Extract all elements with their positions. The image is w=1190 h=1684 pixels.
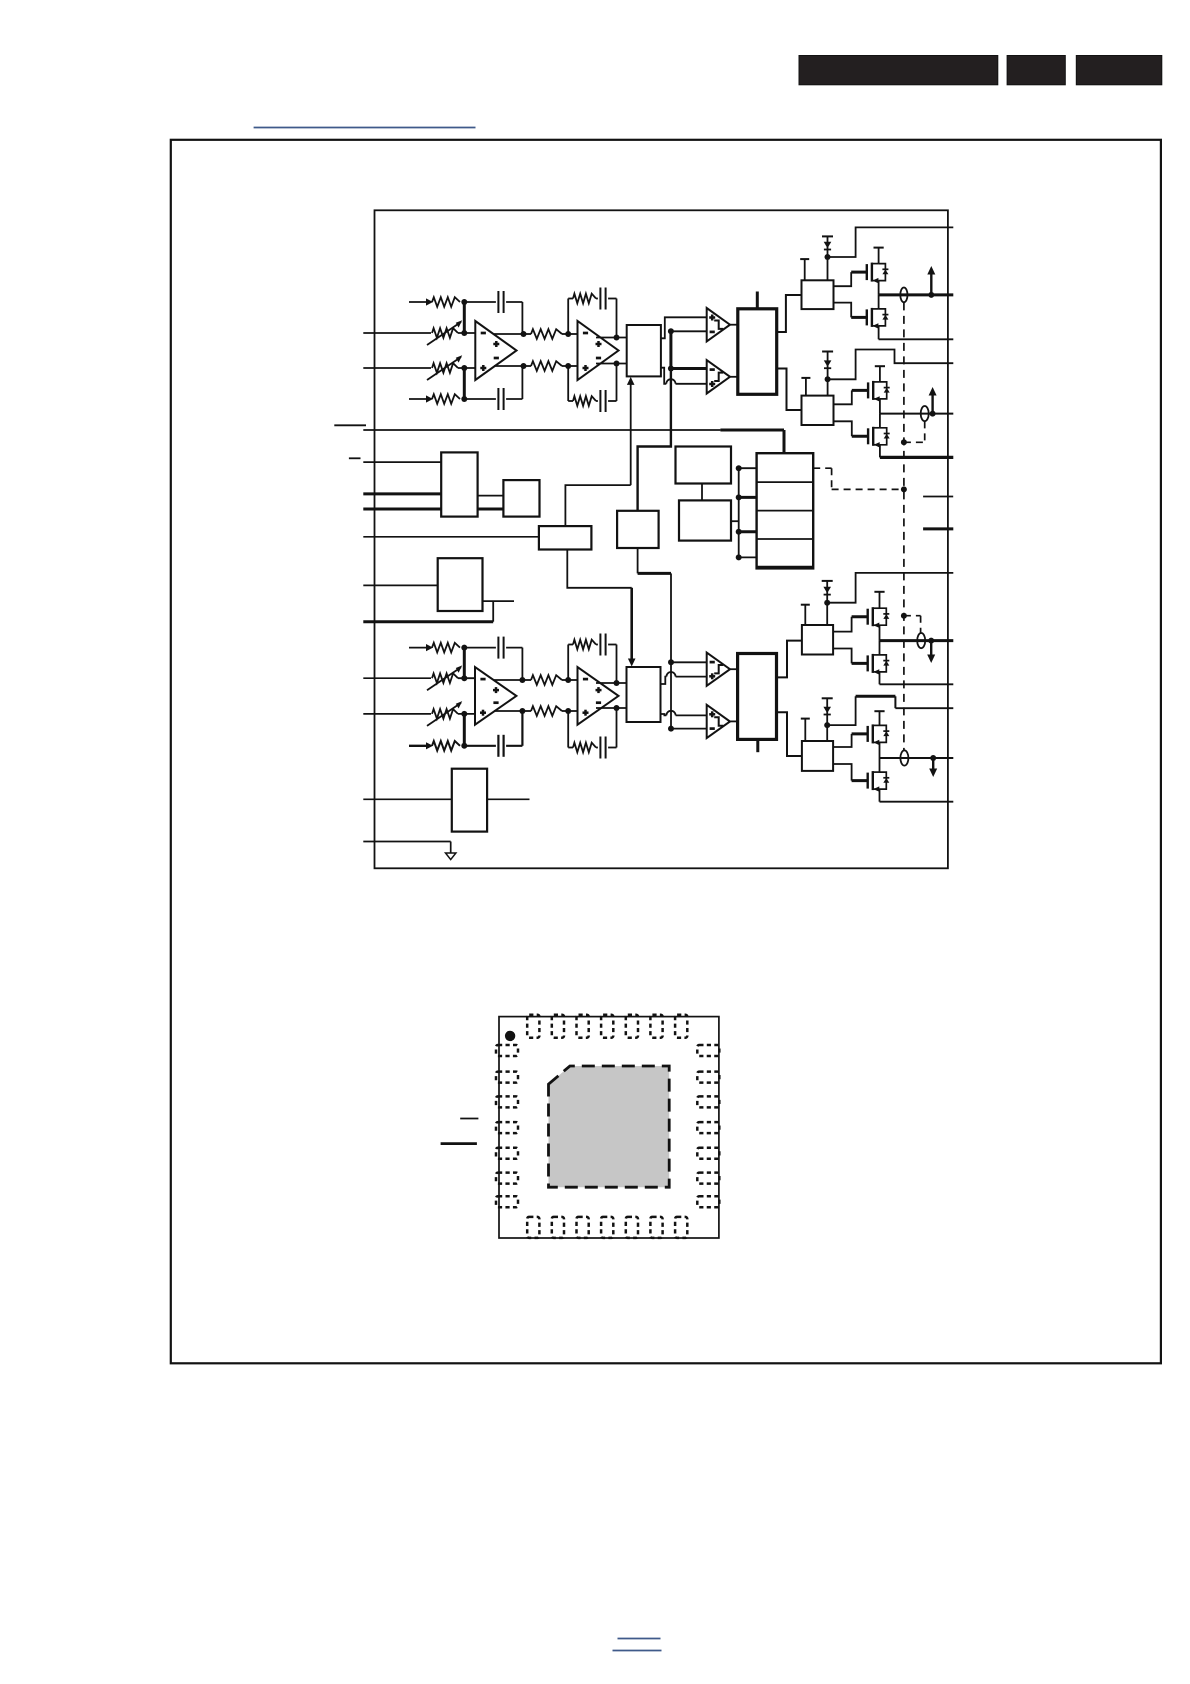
output OUT2 line	[880, 413, 953, 415]
Q1 source to output	[878, 281, 880, 295]
Q6 drain to output	[879, 641, 881, 655]
wire DRV3 to Q6 gate	[833, 649, 868, 664]
Q6 source return	[880, 672, 954, 684]
sense ellipse OUT2	[921, 406, 929, 421]
antenna stub DRV2	[801, 378, 810, 396]
pin bottom 6	[650, 1217, 662, 1238]
pin left 6	[496, 1173, 518, 1184]
wire PWM-A to comparator CMP1	[661, 317, 707, 338]
package outline	[499, 1017, 719, 1238]
D1 net to supply rail	[828, 227, 954, 257]
driver DRV1	[802, 280, 834, 309]
antenna stub DRV1	[800, 259, 809, 280]
Q8 drain to output	[879, 758, 881, 772]
pin left 3	[496, 1096, 518, 1107]
table tap 1	[736, 465, 757, 471]
wire CMP4 output	[730, 720, 738, 722]
transistor Q4 low-side	[868, 427, 890, 448]
Q2 drain to output	[878, 295, 880, 309]
pin bottom 4	[601, 1217, 613, 1238]
block PLIM	[438, 558, 483, 611]
sense ellipse OUT1	[900, 288, 907, 303]
wire PWM-B to comparator CMP4 with hop	[661, 711, 707, 716]
feedback arrow into node C	[409, 644, 433, 651]
wire DRV2 to Q3 gate	[834, 390, 869, 404]
dashed branch to OUT2 ellipse	[901, 421, 925, 445]
pin left 5	[496, 1148, 518, 1159]
wire DRV2 to Q4 gate	[834, 421, 869, 436]
current arrow OUT4	[929, 758, 937, 777]
ramp to PWM-B arrow	[567, 550, 635, 667]
variable resistor VR2	[427, 355, 462, 380]
comparator CMP1	[707, 308, 730, 341]
feedback arrow into node D	[409, 742, 433, 749]
node C dot	[461, 645, 467, 651]
resistor R10	[531, 706, 562, 716]
bus tie rows 7-8	[463, 714, 466, 746]
block REF	[676, 447, 732, 484]
variable resistor VR3	[427, 665, 462, 690]
feedback capacitor C1	[464, 291, 522, 334]
Q4 source return thick	[880, 445, 953, 458]
junction dot OUT2	[930, 411, 936, 417]
transistor Q3 high-side	[868, 381, 890, 402]
wire input row 6	[363, 677, 431, 679]
Q3 drain rail	[875, 366, 885, 382]
Q7 drain rail	[874, 711, 884, 725]
carrier bus vertical	[638, 331, 671, 511]
clamp diode D3	[822, 581, 833, 625]
resistor R7	[432, 643, 460, 653]
PLIM output stub	[483, 600, 515, 602]
footer link underline 1	[618, 1638, 661, 1640]
pin left 4	[496, 1122, 518, 1133]
resistor R1	[432, 297, 460, 307]
wire DRV1 to Q1 gate	[834, 272, 867, 286]
inner diagram border	[375, 210, 948, 868]
block gate-drive logic B	[738, 654, 777, 740]
wire into oscillator	[363, 536, 539, 538]
U2 output wires	[596, 335, 627, 367]
feedback resistor R6 and capacitor C4	[568, 364, 616, 413]
net ramp reference horizontal	[363, 430, 784, 453]
node dots stage2	[565, 331, 571, 369]
driver DRV4	[802, 741, 833, 771]
node dot row6	[458, 675, 475, 681]
Q5 source to output	[879, 625, 881, 640]
Q8 source return	[880, 789, 954, 802]
sense ellipse OUT3	[917, 633, 925, 648]
block logic table	[757, 453, 814, 568]
block RAMP shaper	[617, 511, 659, 548]
dashed branch to OUT3 ellipse	[901, 613, 921, 633]
wire into block PLIM	[363, 584, 437, 586]
feedback resistor R5 and capacitor C3	[568, 288, 616, 338]
U1 output wires	[494, 331, 527, 369]
feedback resistor R11 and capacitor C7	[568, 634, 616, 684]
wire PWM-B to comparator CMP3 with hop	[661, 672, 707, 684]
pin left 2	[496, 1072, 518, 1083]
op-amp U2 integrator	[578, 321, 619, 380]
node dots stage2 lower	[565, 677, 571, 714]
pin bottom 2	[552, 1217, 564, 1238]
carrier bus to lower comparators	[638, 548, 671, 662]
hyperlink underline	[254, 127, 476, 129]
feedback resistor R12 and capacitor C8	[568, 708, 616, 759]
comparator CMP2	[707, 360, 730, 393]
wire CMP3 output	[730, 668, 738, 670]
right edge stub thin	[923, 496, 953, 498]
wire DRV1 to Q2 gate	[834, 303, 867, 318]
table tap 4	[736, 554, 757, 560]
pin right 4	[697, 1122, 719, 1133]
pin top 4	[601, 1015, 613, 1038]
current arrow OUT2	[929, 387, 937, 414]
pin right 5	[697, 1148, 719, 1159]
wire logicA to driver DRV1	[777, 295, 802, 332]
block CTL2	[503, 480, 539, 516]
junction dot carrier CMP1	[668, 328, 707, 334]
Q3 source to output	[879, 399, 881, 414]
pin top 1	[527, 1015, 539, 1038]
node D dot	[461, 743, 467, 749]
wires CTL1 to CTL2	[478, 496, 504, 509]
current arrow OUT3	[927, 641, 935, 663]
op-amp U3 input amplifier	[475, 667, 516, 725]
wire into block CTL1 thin	[363, 461, 441, 463]
node B dot	[461, 396, 467, 402]
pin-1 index dot	[505, 1031, 515, 1041]
left tick mark short	[349, 457, 361, 459]
clamp diode D4	[822, 698, 833, 741]
pin left 7	[496, 1196, 518, 1207]
block BIAS	[679, 500, 731, 540]
block PWM logic A	[627, 325, 661, 376]
Q7 source to output	[879, 742, 881, 758]
pin top 7	[675, 1015, 687, 1038]
redacted title bar 1	[799, 56, 998, 85]
transistor Q5 high-side	[868, 607, 890, 628]
resistor R2	[432, 394, 460, 404]
wire DRV4 to Q7 gate	[833, 734, 868, 747]
dashed branch from logic table	[813, 468, 907, 492]
feedback capacitor C2	[464, 366, 522, 410]
wire DRV4 to Q8 gate	[833, 764, 868, 781]
U4 output wires	[596, 680, 627, 711]
pin top 3	[577, 1015, 589, 1038]
table tap 3	[736, 529, 757, 535]
pin right 7	[697, 1196, 719, 1207]
wire input row 3	[363, 367, 431, 369]
bus tie rows 5-6	[463, 648, 466, 679]
stub on gate-drive logic A	[756, 292, 759, 309]
driver DRV3	[802, 625, 833, 655]
D3 net to supply rail	[827, 573, 953, 603]
feedback arrow into node A	[409, 298, 433, 305]
BIAS to table link	[731, 520, 739, 522]
node A dot	[461, 299, 467, 305]
output OUT1 line	[879, 293, 954, 296]
output OUT3 line	[880, 639, 954, 642]
wire DRV3 to Q5 gate	[833, 617, 868, 632]
junction dot carrier CMP2	[668, 366, 707, 372]
table tap 2	[736, 494, 757, 500]
pin top 5	[626, 1015, 638, 1038]
outer figure frame	[171, 140, 1161, 1364]
block CTL1	[441, 452, 477, 516]
op-amp U4 integrator	[578, 667, 619, 725]
node dot row7	[458, 711, 475, 717]
sense ellipse OUT4	[900, 750, 908, 765]
pin top 2	[552, 1015, 564, 1038]
D2 net over bridge	[828, 350, 954, 380]
feedback capacitor C6	[464, 711, 522, 757]
resistor R9	[531, 675, 562, 685]
node dot row3	[458, 365, 475, 371]
wire to ground	[363, 842, 450, 854]
junction dot OUT3	[928, 638, 934, 644]
pin left 1	[496, 1045, 518, 1056]
pin bottom 7	[675, 1217, 687, 1238]
wire input row 7	[363, 713, 431, 715]
wire input row 2	[363, 332, 431, 334]
stub on gate-drive logic B	[756, 739, 759, 752]
output OUT4 line	[880, 757, 954, 759]
wire into block CTL1 thick a	[363, 492, 441, 495]
antenna stub DRV3	[801, 605, 810, 625]
package tick mark thin	[460, 1118, 478, 1120]
pin right 3	[697, 1096, 719, 1107]
bus tie rows 3-4	[463, 368, 466, 399]
pin top 6	[650, 1015, 662, 1038]
resistor R4	[531, 361, 562, 371]
feedback capacitor C5	[464, 637, 522, 680]
junction dot carrier CMP4	[668, 726, 707, 732]
junction dot OUT1	[928, 292, 934, 298]
pin bottom 1	[527, 1217, 539, 1238]
pin bottom 3	[577, 1217, 589, 1238]
comparator CMP3	[707, 653, 730, 686]
thermal pad	[549, 1066, 670, 1187]
junction dot OUT4	[930, 755, 936, 761]
block OSC	[539, 526, 592, 549]
bus tie rows 1-2	[463, 302, 466, 333]
package tick mark thick	[441, 1142, 477, 1145]
Q5 drain rail	[874, 592, 884, 608]
wire PWM-A to comparator CMP2 with hop	[661, 368, 707, 384]
block PWM logic B	[627, 667, 661, 722]
wire into block CTL1 thick b	[363, 508, 441, 511]
feedback arrow into node B	[409, 395, 433, 402]
transistor Q1 high-side	[867, 263, 889, 284]
pin right 6	[697, 1173, 719, 1184]
current arrow OUT1	[927, 266, 935, 295]
Q4 drain to output	[879, 414, 881, 428]
left tick mark long	[334, 424, 366, 426]
ramp to PWM-A arrow	[565, 377, 634, 526]
clamp diode D2	[822, 352, 833, 396]
wire logicB to driver DRV4	[777, 712, 802, 756]
Q2 source return	[879, 326, 954, 339]
Q1 drain rail	[874, 248, 884, 264]
variable resistor VR1	[427, 320, 462, 345]
pin bottom 5	[626, 1217, 638, 1238]
wire CMP1 output	[730, 324, 738, 326]
PLIM thick return	[363, 601, 493, 622]
resistor R8	[432, 741, 460, 751]
comparator CMP4	[707, 705, 730, 738]
wire logicB to driver DRV3	[777, 641, 802, 678]
transistor Q2 low-side	[867, 308, 889, 329]
redacted title bar 3	[1076, 56, 1162, 85]
block gate-drive logic A	[738, 309, 777, 395]
wire through block PROT	[363, 798, 529, 800]
right edge stub thick	[923, 527, 953, 530]
resistor R3	[531, 329, 562, 339]
block PROT	[452, 769, 487, 832]
dashed sense bus vertical	[903, 302, 905, 750]
ground	[446, 853, 456, 860]
op-amp U1 input amplifier	[475, 321, 516, 380]
junction dot carrier CMP3	[668, 659, 707, 665]
footer link underline 2	[613, 1650, 662, 1652]
pin right 1	[697, 1045, 719, 1056]
REF to BIAS link	[701, 484, 703, 501]
wire CMP2 output	[730, 376, 738, 378]
driver DRV2	[802, 396, 834, 425]
carrier link CMP3-CMP4	[670, 662, 672, 728]
redacted title bar 2	[1007, 56, 1065, 85]
D4 net over bridge	[827, 696, 953, 725]
transistor Q7 high-side	[868, 724, 890, 745]
antenna stub DRV4	[801, 719, 810, 741]
transistor Q8 low-side	[868, 771, 890, 792]
clamp diode D1	[822, 236, 833, 280]
U3 output wires	[494, 677, 525, 714]
pin right 2	[697, 1072, 719, 1083]
wire logicA to driver DRV2	[777, 369, 802, 411]
table input bus	[738, 468, 740, 557]
node dot row2	[458, 330, 475, 336]
transistor Q6 low-side	[868, 654, 890, 675]
variable resistor VR4	[427, 701, 462, 726]
